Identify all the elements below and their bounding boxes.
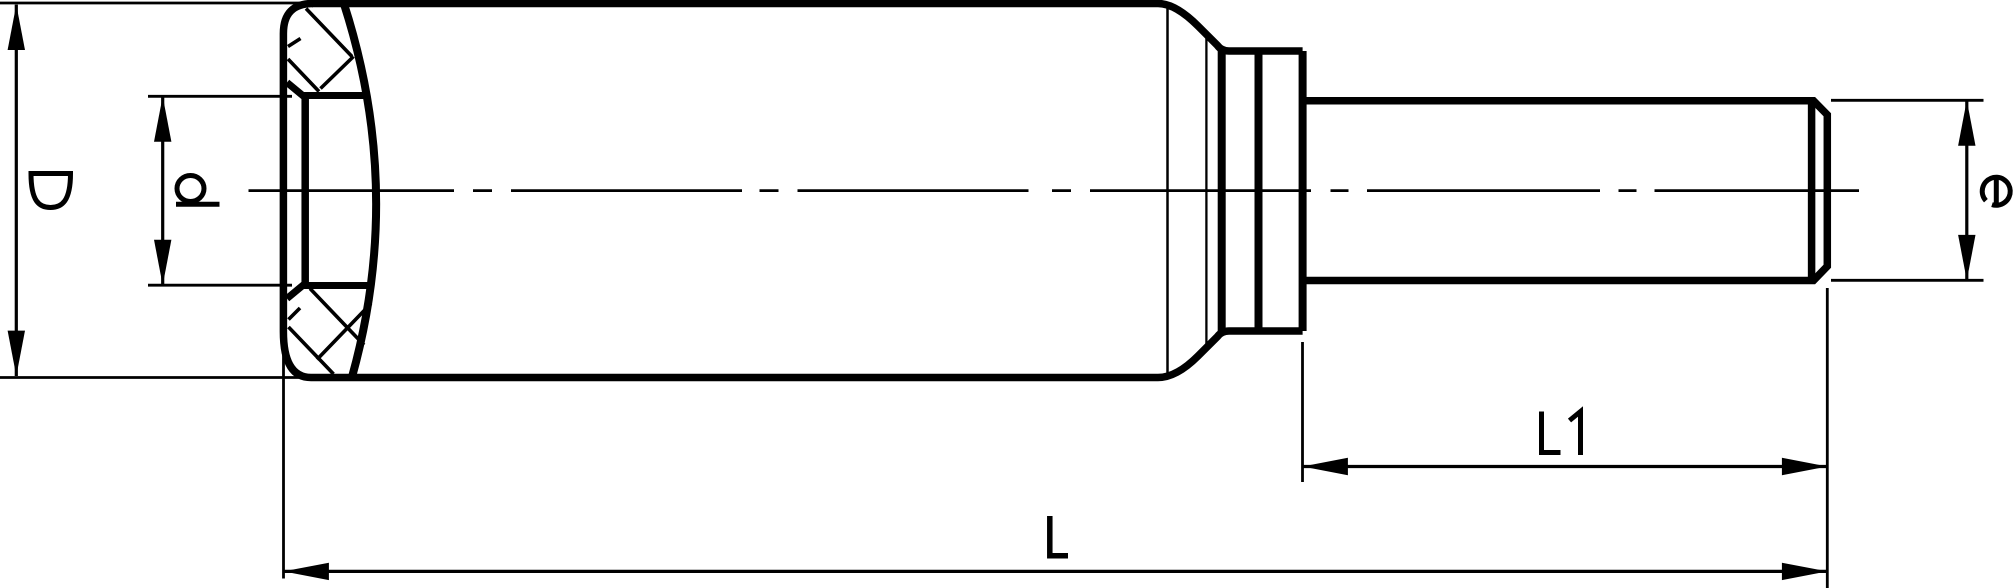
arrow d bottom	[154, 240, 171, 285]
body outline left+bottom: top-left corner, left edge, bottom-left corner, bottom edge, bottom-right corner, chamfer, collar bottom edge	[283, 4, 1302, 378]
hatch lines top section	[288, 9, 354, 92]
collar left face line	[1218, 51, 1226, 331]
dimension L line	[284, 570, 1828, 573]
hex socket top edge	[303, 92, 368, 99]
dimension D extension line top	[0, 2, 314, 5]
corner tangent line (thin vertical at chamfer)	[1205, 34, 1207, 348]
dimension L extension line left	[282, 355, 285, 579]
dimension d extension line top	[148, 95, 292, 98]
label L1: letter L	[1542, 412, 1561, 453]
stud thread-end line	[1808, 101, 1816, 281]
dimension L1 extension line left	[1301, 342, 1304, 482]
arrow L left	[284, 563, 329, 580]
arrow d top	[154, 96, 171, 141]
arrow L1 right	[1782, 458, 1827, 475]
label e (rotated): bar	[1994, 177, 1999, 206]
face tangent line (thin vertical at body right)	[1166, 4, 1169, 377]
label e (rotated): ring with opening	[1982, 177, 2010, 205]
label d (rotated): bowl	[177, 176, 204, 202]
dimension e line	[1965, 100, 1968, 280]
body outline top: top edge, top-right corner, chamfer, collar top edge	[312, 4, 1303, 52]
arrow L1 left	[1303, 458, 1348, 475]
dimension D line	[15, 5, 18, 376]
dimension d extension line bottom	[148, 284, 292, 287]
domed face silhouette arc (left end)	[344, 4, 376, 377]
socket mouth chamfer bottom	[287, 284, 305, 299]
collar right face line	[1299, 51, 1307, 331]
centerline (axis, dash-dot)	[249, 189, 1860, 192]
arrow e bottom	[1958, 235, 1975, 280]
dimension d line	[161, 96, 164, 285]
socket mouth chamfer top	[287, 83, 305, 98]
dimension D extension line bottom	[0, 376, 330, 379]
stud outline	[1303, 101, 1828, 281]
label L (overall length)	[1050, 516, 1068, 556]
dimension L1 line	[1303, 465, 1828, 468]
label d (rotated): stem	[176, 202, 220, 207]
hex socket left wall	[301, 96, 309, 286]
arrow e top	[1958, 100, 1975, 145]
arrow L right	[1782, 563, 1827, 580]
shared extension line right (L and L1)	[1826, 288, 1829, 588]
label L1: digit 1	[1570, 412, 1581, 456]
collar middle line	[1255, 51, 1263, 331]
arrow D bottom	[8, 331, 25, 376]
arrow D top	[8, 5, 25, 50]
label D (rotated)	[31, 174, 71, 208]
hatch lines bottom section	[289, 289, 372, 375]
dimension e extension line top	[1831, 99, 1984, 102]
dimension e extension line bottom	[1831, 279, 1984, 282]
hex socket bottom edge	[303, 282, 372, 289]
